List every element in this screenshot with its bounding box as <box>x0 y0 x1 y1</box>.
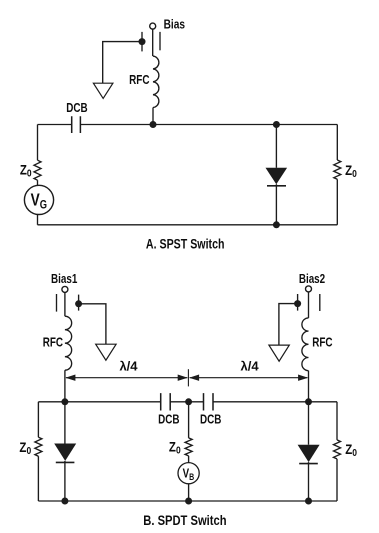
svg-text:Z0: Z0 <box>19 440 31 456</box>
wire bypass2 to ground <box>279 304 298 346</box>
svg-text:B. SPDT Switch: B. SPDT Switch <box>143 513 226 528</box>
wire arrowhead right-out <box>298 375 308 381</box>
wire bias1 stub <box>64 292 66 316</box>
node coil junction A <box>150 121 157 128</box>
source VG A <box>24 185 53 214</box>
wire right branch lower A <box>336 179 338 225</box>
wire RF line A right segment <box>80 124 337 126</box>
wire left branch upper A <box>37 125 39 161</box>
resistor Z0 right A <box>334 160 341 179</box>
wire diode branch upper A <box>275 125 277 168</box>
wire coil to RF line A <box>152 108 154 125</box>
wire center branch upper B <box>188 402 190 438</box>
capacitor bypass2 plate outer <box>319 294 321 311</box>
ground A <box>93 83 113 98</box>
wire coil1 to RF line B <box>64 370 66 402</box>
node bypass2 junction <box>294 300 301 307</box>
resistor Z0 B center <box>185 438 192 456</box>
diode D1 <box>266 168 288 184</box>
wire lambda/4 dimension right <box>190 377 308 379</box>
node diode2 bottom <box>61 498 68 505</box>
node Bias2 terminal <box>306 286 312 292</box>
svg-text:Z0: Z0 <box>169 440 181 456</box>
resistor Z0 B far-right <box>334 440 341 459</box>
svg-text:A. SPST Switch: A. SPST Switch <box>146 236 225 252</box>
svg-text:λ/4: λ/4 <box>241 359 260 374</box>
capacitor bypass plate left A <box>141 32 143 52</box>
node bypass junction A <box>139 38 146 45</box>
node Bias terminal A <box>150 23 156 29</box>
wire RF line B segment 1 <box>38 401 160 403</box>
wire diode2 branch upper <box>64 402 66 444</box>
svg-text:DCB: DCB <box>66 102 87 116</box>
source VB <box>178 463 199 484</box>
svg-text:RFC: RFC <box>312 336 333 350</box>
node diode3 bottom <box>305 498 312 505</box>
node diode bottom A <box>273 221 280 228</box>
inductor RFC B-left <box>65 316 72 370</box>
svg-text:Bias1: Bias1 <box>51 273 78 287</box>
svg-text:λ/4: λ/4 <box>119 359 138 374</box>
svg-text:Z0: Z0 <box>345 163 357 179</box>
wire left edge lower B <box>37 456 39 501</box>
capacitor DCB A <box>72 116 81 133</box>
node center tick <box>187 369 189 386</box>
wire source to bottom A <box>37 214 39 224</box>
wire arrowhead left-out <box>65 375 75 381</box>
wire RF line A left segment <box>38 124 72 126</box>
node diode top A <box>273 121 280 128</box>
inductor RFC B-right <box>302 318 309 371</box>
wire left edge upper B <box>37 402 39 437</box>
capacitor DCB B-left <box>161 393 171 410</box>
capacitor DCB B-right <box>204 393 214 410</box>
wire lambda/4 dimension left <box>66 377 187 379</box>
ground B-right <box>269 345 289 361</box>
node RF center junction <box>185 398 192 405</box>
wire bottom line B <box>38 500 337 502</box>
capacitor bypass plate right A <box>159 32 161 50</box>
wire diode3 cathode bar <box>299 463 318 465</box>
node RF right junction <box>305 398 312 405</box>
wire diode3 branch upper <box>308 402 310 445</box>
capacitor bypass2 plate inner <box>297 294 299 311</box>
wire right edge upper B <box>336 402 338 440</box>
wire right branch upper A <box>336 125 338 161</box>
wire bypass1 to ground <box>79 304 106 344</box>
wire diode3 branch lower <box>308 462 310 501</box>
svg-text:Bias: Bias <box>164 17 185 31</box>
wire resistor to source A <box>37 180 39 185</box>
inductor RFC A <box>153 56 159 107</box>
resistor Z0 left A <box>34 160 41 180</box>
svg-text:DCB: DCB <box>200 413 221 427</box>
svg-text:Z0: Z0 <box>345 442 357 458</box>
node center bottom <box>185 498 192 505</box>
wire diode2 branch lower <box>64 461 66 501</box>
svg-text:Bias2: Bias2 <box>299 273 325 287</box>
svg-text:DCB: DCB <box>158 413 179 427</box>
wire coil2 to RF line B <box>308 371 310 402</box>
wire right edge lower B <box>336 459 338 501</box>
wire diode branch lower A <box>275 184 277 225</box>
wire bypass to ground A <box>103 42 142 84</box>
wire source to bottom B <box>188 484 190 501</box>
wire bias stub A <box>152 29 154 56</box>
capacitor bypass1 plate outer <box>56 294 58 312</box>
wire arrowhead right-in <box>189 375 199 381</box>
svg-text:RFC: RFC <box>43 336 64 350</box>
wire RF line B segment 2 <box>170 401 203 403</box>
node Bias1 terminal <box>62 286 68 292</box>
node bypass1 junction <box>75 300 82 307</box>
ground B-left <box>96 344 116 360</box>
svg-text:RFC: RFC <box>129 74 150 88</box>
wire arrowhead left-in <box>178 375 188 381</box>
wire resistor to source B <box>188 456 190 463</box>
svg-text:Z0: Z0 <box>20 163 32 179</box>
wire diode2 cathode bar <box>56 461 75 463</box>
wire bias2 stub <box>308 292 310 318</box>
wire diode cathode bar A <box>267 185 286 187</box>
resistor Z0 B far-left <box>35 437 42 456</box>
wire RF line B segment 3 <box>213 401 337 403</box>
wire bottom line A <box>38 224 338 226</box>
capacitor bypass1 plate inner <box>78 295 80 311</box>
diode D3 <box>298 445 320 462</box>
diode D2 <box>54 444 76 461</box>
node RF left junction <box>61 398 68 405</box>
